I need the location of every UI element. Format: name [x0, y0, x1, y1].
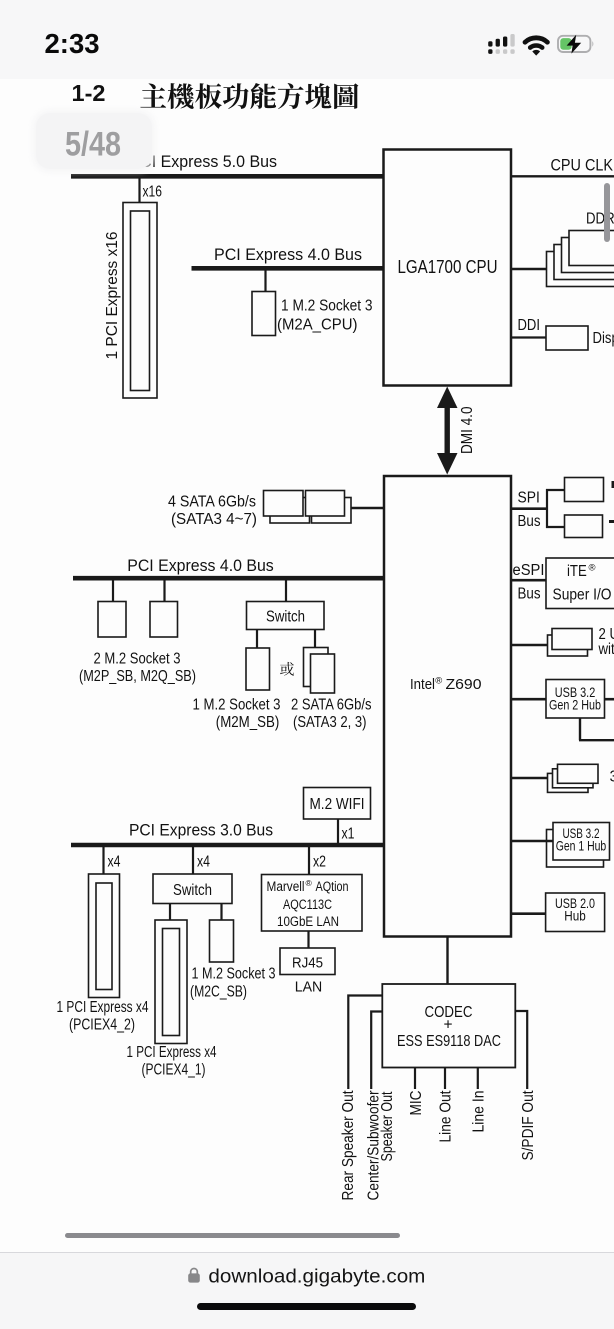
- svg-text:Gen 1 Hub: Gen 1 Hub: [556, 838, 607, 854]
- svg-text:Switch: Switch: [173, 882, 212, 899]
- wire M2P drop: [112, 580, 114, 602]
- svg-text:x1: x1: [342, 826, 355, 843]
- wire eSPI: [511, 579, 546, 582]
- socket M2C_SB: [210, 920, 234, 962]
- wire switch to M2M: [256, 630, 258, 649]
- slot PCIEX4_1 outer: [155, 920, 187, 1044]
- status bar background: [0, 0, 614, 79]
- sata connector front2: [306, 491, 345, 517]
- svg-text:1 PCI Express x16: 1 PCI Express x16: [104, 231, 121, 359]
- slot PCIEX4_1 inner: [163, 929, 180, 1036]
- memory DIMM rect4: [547, 252, 614, 287]
- wire marvell to rj45: [307, 931, 309, 948]
- svg-text:Intel: Intel: [410, 676, 435, 693]
- page number text 5/48: [0, 0, 200, 200]
- svg-text:®: ®: [306, 878, 313, 888]
- memory DIMM rect1: [569, 231, 614, 266]
- wire gen2 elbow down: [579, 718, 581, 740]
- svg-text:2 SATA 6Gb/s: 2 SATA 6Gb/s: [291, 697, 372, 714]
- svg-text:5/48: 5/48: [65, 126, 121, 164]
- wire line out: [444, 1068, 446, 1090]
- chip LGA1700 CPU: [384, 150, 512, 386]
- svg-text:PCI Express 4.0 Bus: PCI Express 4.0 Bus: [127, 556, 274, 575]
- wire x16 drop: [138, 178, 140, 203]
- svg-text:RJ45: RJ45: [292, 955, 323, 972]
- svg-text:download.gigabyte.com: download.gigabyte.com: [208, 1266, 425, 1288]
- svg-text:Line Out: Line Out: [438, 1090, 455, 1142]
- socket M2M_SB: [246, 648, 270, 690]
- svg-text:iTE: iTE: [567, 563, 587, 580]
- home indicator: [197, 1303, 416, 1310]
- svg-text:+: +: [443, 1017, 452, 1034]
- wire mic: [414, 1068, 416, 1090]
- bus PCI Express 3.0: [71, 843, 384, 848]
- wire spdif elbow: [515, 1011, 527, 1089]
- wire DDI: [511, 336, 546, 338]
- svg-text:MIC: MIC: [408, 1091, 425, 1116]
- sata2 rear: [304, 648, 329, 687]
- svg-text:Line In: Line In: [471, 1091, 488, 1133]
- svg-text:Bus: Bus: [518, 513, 541, 530]
- usb2u front: [552, 629, 592, 650]
- battery icon (charging): [558, 36, 590, 52]
- svg-text:4 SATA 6Gb/s: 4 SATA 6Gb/s: [168, 494, 256, 511]
- socket M2P_SB: [98, 602, 126, 638]
- box Switch (PCIe4): [247, 602, 325, 630]
- svg-text:3: 3: [610, 769, 614, 786]
- wifi icon: [525, 38, 547, 48]
- slot PCIEX4_2 outer: [89, 874, 120, 998]
- arrow DMI 4.0: [437, 387, 458, 475]
- svg-text:(SATA3 4~7): (SATA3 4~7): [171, 511, 257, 528]
- box Marvell LAN: [262, 875, 363, 932]
- box CODEC: [382, 984, 515, 1068]
- sata connector shadow1: [270, 498, 310, 524]
- box Display: [546, 326, 588, 350]
- wire wifi drop: [337, 819, 339, 845]
- slot 1 PCI Express x16 inner: [131, 211, 150, 391]
- box USB 3.2 Gen 1 Hub rear: [547, 830, 604, 868]
- svg-text:x4: x4: [108, 854, 121, 871]
- box SPI rom1: [565, 478, 604, 502]
- svg-text:(M2P_SB, M2Q_SB): (M2P_SB, M2Q_SB): [79, 668, 196, 685]
- wire to 3stack: [511, 777, 548, 780]
- svg-text:AQC113C: AQC113C: [283, 897, 332, 912]
- box M.2 WIFI: [304, 788, 371, 820]
- svg-text:with: with: [598, 641, 614, 658]
- box iTE Super I/O: [546, 558, 614, 609]
- fragment right-edge wire stub: [609, 520, 614, 523]
- svg-text:(PCIEX4_1): (PCIEX4_1): [142, 1062, 206, 1079]
- wire switch3 to slot: [169, 904, 171, 921]
- svg-text:Hub: Hub: [564, 908, 586, 924]
- svg-text:Gen 2 Hub: Gen 2 Hub: [549, 697, 601, 713]
- memory DIMM rect2: [562, 238, 614, 273]
- svg-text:PCI Express 4.0 Bus: PCI Express 4.0 Bus: [214, 245, 362, 264]
- sata connector shadow2: [312, 498, 352, 524]
- lock icon: [186, 1266, 202, 1284]
- svg-text:DDI: DDI: [518, 317, 541, 334]
- status bar clock 2:33: [0, 0, 614, 79]
- svg-text:®: ®: [589, 563, 596, 574]
- wire rear speaker elbow: [348, 996, 382, 1090]
- wire SPI stub top: [546, 489, 565, 491]
- svg-text:Display: Display: [593, 330, 614, 347]
- sata connector front1: [264, 491, 304, 517]
- wire SPI vertical: [546, 489, 548, 528]
- box USB 3.2 Gen 1 Hub front: [553, 823, 610, 861]
- wire x4 drop 2: [192, 847, 194, 875]
- right scrollbar: [604, 183, 610, 242]
- wire SPI stub bottom: [546, 526, 565, 528]
- svg-text:ESS ES9118 DAC: ESS ES9118 DAC: [397, 1033, 501, 1050]
- usb3stack mid: [553, 769, 594, 788]
- svg-text:1 PCI Express x4: 1 PCI Express x4: [127, 1044, 217, 1061]
- fragment right-edge mark1: [612, 481, 614, 488]
- wire gen2 elbow right: [579, 739, 614, 741]
- svg-text:Switch: Switch: [266, 609, 305, 626]
- svg-text:1 M.2 Socket 3: 1 M.2 Socket 3: [192, 966, 276, 983]
- svg-text:PCI Express 3.0 Bus: PCI Express 3.0 Bus: [129, 821, 273, 840]
- box USB 2.0 Hub: [546, 893, 605, 932]
- wire switch to SATA2: [314, 630, 316, 649]
- memory DIMM rect3: [554, 245, 614, 280]
- svg-text:DDR4: DDR4: [586, 211, 614, 228]
- url text download.gigabyte.com: [0, 1250, 614, 1329]
- wire USB 2U: [511, 644, 548, 647]
- bus PCI Express 4.0 (CPU): [192, 266, 385, 271]
- box USB 3.2 Gen 2 Hub: [546, 680, 605, 719]
- svg-text:1 PCI Express x4: 1 PCI Express x4: [57, 999, 149, 1016]
- chip Intel Z690: [384, 476, 511, 937]
- wire to gen1 hub: [511, 840, 553, 843]
- svg-text:(M2A_CPU): (M2A_CPU): [277, 317, 358, 334]
- wire to gen2 hub: [511, 698, 546, 701]
- svg-text:SPI: SPI: [518, 490, 540, 507]
- glyph or (huo): [280, 662, 294, 676]
- svg-text:M.2 WIFI: M.2 WIFI: [310, 796, 365, 813]
- wire switch3 to M2C: [220, 904, 222, 921]
- svg-text:10GbE LAN: 10GbE LAN: [277, 914, 339, 929]
- wire line in: [477, 1068, 479, 1090]
- sata2 front: [311, 654, 335, 693]
- svg-text:LAN: LAN: [295, 978, 323, 995]
- slot PCIEX4_2 inner: [96, 883, 112, 990]
- wire M2A drop: [264, 270, 266, 292]
- wire gen2 right: [605, 698, 614, 701]
- socket M2Q_SB: [150, 602, 178, 638]
- svg-text:(SATA3 2, 3): (SATA3 2, 3): [293, 714, 367, 731]
- bus PCI Express 5.0: [71, 174, 384, 179]
- svg-text:Z690: Z690: [446, 676, 482, 693]
- svg-text:1 M.2 Socket 3: 1 M.2 Socket 3: [281, 298, 373, 315]
- wire x4 drop 1: [102, 847, 104, 875]
- svg-text:(PCIEX4_2): (PCIEX4_2): [69, 1017, 135, 1034]
- page number pill 5/48: [36, 113, 152, 170]
- wire center sub elbow: [371, 1012, 382, 1090]
- svg-text:Rear Speaker Out: Rear Speaker Out: [340, 1090, 357, 1200]
- wire M2Q drop: [163, 580, 165, 602]
- wire Z690 to CODEC: [446, 937, 448, 985]
- wire SPI: [511, 507, 548, 510]
- box SPI rom2: [565, 515, 603, 538]
- heading number 1-2: [0, 0, 614, 130]
- box RJ45: [280, 948, 335, 975]
- svg-text:Super I/O: Super I/O: [553, 587, 612, 604]
- svg-text:LGA1700 CPU: LGA1700 CPU: [398, 257, 498, 277]
- svg-text:eSPI: eSPI: [513, 562, 545, 579]
- bottom horizontal drag bar: [65, 1233, 400, 1238]
- usb2u rear: [548, 635, 588, 656]
- heading chinese title 主機板功能方塊圖: [140, 83, 166, 107]
- box Switch (PCIe3): [153, 874, 232, 904]
- svg-text:x4: x4: [197, 854, 210, 871]
- svg-text:1 M.2 Socket 3: 1 M.2 Socket 3: [193, 697, 281, 714]
- wire CPU CLK: [511, 175, 614, 177]
- svg-text:(M2M_SB): (M2M_SB): [216, 714, 279, 731]
- svg-text:2 M.2 Socket 3: 2 M.2 Socket 3: [94, 651, 181, 668]
- svg-text:(M2C_SB): (M2C_SB): [190, 984, 247, 1001]
- bus PCI Express 4.0 (chipset): [73, 576, 384, 581]
- usb3stack rear: [548, 773, 589, 792]
- svg-text:AQtion: AQtion: [316, 879, 349, 894]
- svg-text:Speaker Out: Speaker Out: [379, 1091, 396, 1161]
- wire x2 drop: [308, 847, 310, 876]
- slot 1 PCI Express x16 outer: [123, 203, 157, 399]
- wire DDR: [511, 268, 547, 270]
- wire switch drop: [285, 580, 287, 602]
- svg-text:Marvell: Marvell: [267, 879, 305, 894]
- svg-text:Bus: Bus: [518, 585, 541, 602]
- usb3stack front: [558, 764, 599, 783]
- svg-text:®: ®: [435, 676, 442, 687]
- socket M2A_CPU: [252, 292, 276, 336]
- safari bottom bar: [0, 1252, 614, 1329]
- svg-text:DMI 4.0: DMI 4.0: [459, 406, 476, 454]
- svg-text:S/PDIF Out: S/PDIF Out: [520, 1090, 537, 1160]
- wire SATA to Z690: [351, 507, 384, 509]
- svg-text:x2: x2: [313, 854, 326, 871]
- wire to usb2 hub: [511, 912, 546, 915]
- svg-text:CPU CLK: CPU CLK: [551, 156, 614, 175]
- cellular signal icon: [488, 41, 492, 46]
